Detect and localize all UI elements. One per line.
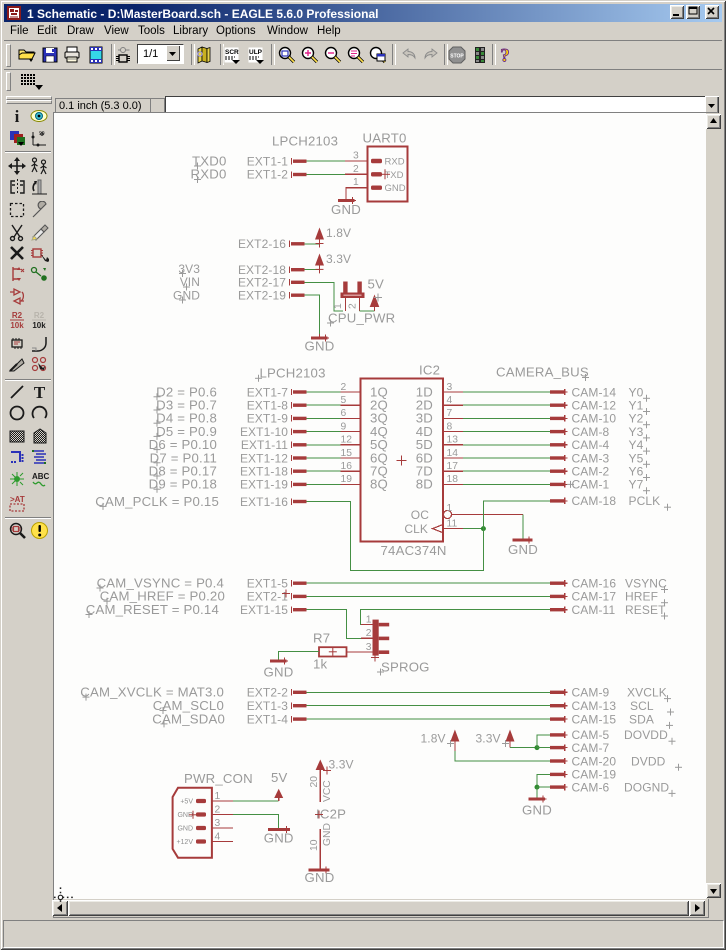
svg-text:GND: GND [322, 823, 333, 846]
svg-text:ABC: ABC [32, 472, 49, 481]
net label D5 = P0.9 [154, 424, 218, 440]
svg-text:10k: 10k [10, 321, 24, 329]
svg-text:1k: 1k [313, 657, 328, 672]
IC2 pin 9 (4Q) [341, 421, 389, 439]
svg-text:GND: GND [331, 202, 361, 217]
pin EXT1-11 [241, 438, 307, 452]
net label D9 = P0.18 [149, 477, 217, 493]
IC2 pin 14 (6D) [416, 448, 463, 466]
net label PCLK [629, 494, 672, 511]
wire EXT1-19 to IC2 [307, 483, 341, 485]
ground symbol (camera) [522, 796, 552, 818]
pin CAM-4 [550, 438, 610, 452]
svg-text:20: 20 [309, 776, 320, 788]
svg-text:10k: 10k [32, 321, 46, 329]
net label D8 = P0.17 [149, 464, 217, 480]
pin EXT1-1 [247, 154, 307, 168]
svg-text:CAMERA_BUS: CAMERA_BUS [496, 365, 589, 380]
net label D2 = P0.6 [154, 384, 218, 400]
wire junction to CAM-7 [537, 747, 550, 749]
svg-text:DVDD: DVDD [631, 754, 666, 768]
net label Y6 [629, 465, 651, 482]
pin EXT2-2 [247, 686, 307, 700]
net label CAM_RESET = P0.14 [86, 602, 220, 618]
svg-text:UART0: UART0 [363, 131, 407, 146]
svg-text:GND: GND [264, 665, 294, 680]
svg-text:CAM-13: CAM-13 [572, 699, 617, 713]
pin EXT2-19 [238, 289, 305, 303]
net label DOVDD [624, 728, 676, 745]
net label TXD0 [192, 153, 227, 169]
svg-text:EXT1-5: EXT1-5 [247, 577, 289, 591]
wire 3.3V to junction [510, 747, 537, 749]
PWR_CON pin 3 (GND) [177, 818, 233, 833]
pin 1 GND of UART0 [346, 177, 406, 194]
net label GND (left) [173, 288, 200, 303]
svg-text:CAM-11: CAM-11 [572, 603, 616, 617]
svg-text:3: 3 [447, 382, 453, 393]
wire EXT1-9 to IC2 [307, 417, 341, 419]
pin CAM-20 [550, 754, 616, 768]
wire EXT2-19 to ground [305, 295, 320, 334]
junction dot DOVDD node [535, 745, 540, 750]
wire EXT2-18 to 3.3V [305, 269, 320, 271]
pin CAM-5 [550, 728, 610, 742]
svg-text:SCR: SCR [225, 49, 239, 56]
svg-text:1.8V: 1.8V [326, 226, 351, 240]
net label D3 = P0.7 [154, 398, 218, 414]
svg-text:SPROG: SPROG [381, 660, 430, 675]
wire EXT1-4 to CAM-15 [307, 718, 551, 720]
svg-text:GND: GND [173, 288, 200, 302]
svg-text:Y1: Y1 [629, 399, 644, 413]
svg-text:EXT1-4: EXT1-4 [247, 712, 289, 726]
pin CAM-12 [550, 399, 616, 413]
pin CAM-17 [550, 590, 616, 604]
svg-text:TXD: TXD [385, 170, 404, 181]
svg-text:CAM-20: CAM-20 [572, 754, 617, 768]
svg-text:Y3: Y3 [629, 425, 644, 439]
svg-text:CAM-12: CAM-12 [572, 399, 617, 413]
pin EXT1-4 [247, 712, 307, 726]
wire EXT1-15 to SPROG pin2 [307, 610, 362, 639]
wire 5D to CAM-4 [463, 444, 550, 446]
svg-text:CAM-7: CAM-7 [572, 741, 610, 755]
svg-text:+5V: +5V [180, 799, 193, 806]
pin EXT1-12 [240, 451, 307, 465]
supply symbol 5V [368, 277, 385, 312]
svg-text:SCL: SCL [630, 699, 654, 713]
IC2 pin 11 (CLK) with clock triangle [404, 518, 463, 536]
net label CAM_HREF = P0.20 [100, 589, 225, 605]
svg-text:CAM-10: CAM-10 [572, 412, 617, 426]
pin CAM-18 [550, 494, 616, 508]
svg-text:1: 1 [353, 177, 359, 188]
svg-text:10: 10 [309, 839, 320, 851]
svg-text:3.3V: 3.3V [326, 252, 351, 266]
net label D7 = P0.11 [150, 450, 217, 466]
svg-text:EXT2-17: EXT2-17 [238, 276, 286, 290]
svg-text:8: 8 [447, 421, 453, 432]
junction dot DOGND node [535, 785, 540, 790]
pin EXT1-19 [240, 478, 307, 492]
wire GND pin2 to ground [233, 815, 278, 829]
svg-text:74AC374N: 74AC374N [381, 543, 447, 558]
svg-text:CAM-4: CAM-4 [572, 438, 610, 452]
svg-text:5: 5 [341, 395, 347, 406]
pin CAM-3 [550, 451, 610, 465]
net label D4 = P0.8 [154, 411, 218, 427]
wire EXT2-2 to CAM-9 [307, 691, 551, 693]
IC2 pin 12 (5Q) [341, 435, 389, 453]
origin cross EXT2 part (after EXT2-1) [282, 590, 290, 598]
supply symbol 3.3V (camera) [476, 730, 515, 748]
svg-text:EXT2-1: EXT2-1 [247, 590, 289, 604]
IC2 pin 6 (3Q) [341, 408, 389, 426]
svg-text:9: 9 [341, 421, 347, 432]
wire +5V pin to 5V supply [233, 800, 279, 802]
svg-text:CAM-18: CAM-18 [572, 494, 617, 508]
svg-text:12: 12 [341, 435, 353, 446]
net label SCL [630, 699, 674, 716]
svg-text:EXT1-15: EXT1-15 [240, 603, 288, 617]
wire RXD0 net [307, 173, 346, 175]
wire R7 to ground [278, 652, 319, 660]
IC2 pin 17 (7D) [416, 461, 463, 479]
svg-text:6: 6 [341, 408, 347, 419]
svg-text:1: 1 [215, 791, 221, 802]
svg-text:EXT1-8: EXT1-8 [247, 399, 289, 413]
svg-text:8Q: 8Q [370, 477, 388, 492]
svg-text:T: T [34, 383, 46, 402]
pin EXT1-18 [240, 465, 307, 479]
wire 6D to CAM-3 [463, 457, 550, 459]
svg-text:GND: GND [522, 803, 552, 818]
SPROG pin 2 [361, 628, 389, 640]
wire 8D to CAM-1 [463, 483, 550, 485]
svg-text:R2: R2 [34, 311, 45, 320]
IC2 pin 19 (8Q) [341, 474, 389, 492]
svg-text:CAM-14: CAM-14 [572, 385, 617, 399]
svg-text:GND: GND [508, 542, 538, 557]
svg-text:ULP: ULP [249, 49, 263, 56]
pin CAM-8 [550, 425, 610, 439]
svg-text:5V: 5V [271, 770, 288, 785]
svg-text:CAM-8: CAM-8 [572, 425, 610, 439]
pin EXT1-10 [240, 425, 307, 439]
wire EXT1-7 to IC2 [307, 391, 341, 393]
pin EXT2-18 [238, 263, 305, 277]
origin cross UART0 [380, 169, 390, 179]
net label CAM_XVCLK = MAT3.0 [80, 685, 224, 701]
pin CAM-2 [550, 465, 610, 479]
IC2 pin 3 (1D) [416, 382, 463, 400]
wire CAM-19 to gnd node [537, 774, 550, 787]
svg-text:CPU_PWR: CPU_PWR [328, 311, 395, 326]
svg-text:EXT2-16: EXT2-16 [238, 237, 286, 251]
pin EXT1-2 [247, 168, 307, 182]
pin CAM-6 [550, 780, 610, 794]
svg-text:4: 4 [447, 395, 453, 406]
svg-text:RESET: RESET [625, 603, 666, 617]
origin cross SPROG [371, 654, 379, 662]
pin CAM-19 [550, 768, 616, 782]
pin EXT1-8 [247, 399, 307, 413]
svg-text:CAM_PCLK = P0.15: CAM_PCLK = P0.15 [95, 494, 219, 509]
svg-text:3: 3 [215, 818, 221, 829]
svg-text:Y0: Y0 [629, 385, 644, 399]
svg-text:PCLK: PCLK [629, 494, 661, 508]
wire gnd node down [536, 787, 538, 797]
wire 2D to CAM-12 [463, 404, 550, 406]
svg-text:EXT1-3: EXT1-3 [247, 699, 289, 713]
connector UART0 body [368, 147, 408, 202]
svg-text:CAM-1: CAM-1 [572, 478, 610, 492]
svg-text:90: 90 [39, 131, 45, 137]
connector PWR_CON body [173, 788, 212, 858]
svg-text:2: 2 [341, 382, 347, 393]
svg-text:CAM-16: CAM-16 [572, 577, 617, 591]
wire EXT2-17 to CPU_PWR pin1 [305, 282, 344, 311]
svg-text:EXT1-7: EXT1-7 [247, 385, 289, 399]
PWR_CON pin 2 (GND) [177, 804, 233, 819]
svg-text:14: 14 [447, 448, 459, 459]
pin CAM-13 [550, 699, 616, 713]
svg-text:2: 2 [366, 628, 372, 639]
svg-text:CAM-3: CAM-3 [572, 451, 610, 465]
svg-text:Y5: Y5 [629, 451, 644, 465]
svg-text:CAM-2: CAM-2 [572, 465, 610, 479]
pin CAM-10 [550, 412, 616, 426]
svg-text:GND: GND [177, 812, 193, 819]
svg-text:LPCH2103: LPCH2103 [260, 366, 326, 381]
svg-text:1: 1 [447, 503, 453, 514]
svg-text:1: 1 [333, 303, 344, 309]
supply symbol 3.3V (IC2P VCC) [316, 758, 354, 775]
IC U1 74AC374N body [361, 379, 444, 542]
svg-text:CAM-9: CAM-9 [572, 686, 610, 700]
net label Y1 [629, 399, 651, 416]
PWR_CON pin 1 (+5V) [180, 791, 233, 806]
svg-text:CAM_RESET = P0.14: CAM_RESET = P0.14 [86, 602, 219, 617]
svg-text:2: 2 [353, 164, 359, 175]
bus label CAMERA_BUS [496, 365, 589, 381]
jumper CPU_PWR [341, 282, 365, 312]
svg-text:EXT1-16: EXT1-16 [240, 495, 288, 509]
svg-text:DOVDD: DOVDD [624, 728, 668, 742]
part name SPROG [377, 660, 430, 676]
wire CPU_PWR pin2 to 5V [360, 310, 375, 312]
pin CAM-11 [550, 603, 615, 617]
pin EXT2-1 [247, 590, 307, 604]
wire EXT1-12 to IC2 [307, 457, 341, 459]
wire EXT1-3 to CAM-13 [307, 705, 551, 707]
supply symbol 1.8V (camera) [421, 730, 460, 752]
net label D6 = P0.10 [149, 437, 217, 453]
IC2 pin 5 (2Q) [341, 395, 389, 413]
svg-text:SDA: SDA [629, 712, 654, 726]
svg-text:PWR_CON: PWR_CON [184, 771, 253, 786]
svg-text:>AT: >AT [10, 495, 25, 504]
svg-text:EXT1-2: EXT1-2 [247, 168, 289, 182]
svg-text:EXT1-18: EXT1-18 [240, 465, 288, 479]
origin cross IC2 [397, 456, 407, 466]
value label LPCH2103 (EXT1 part, IC2 block) [255, 366, 326, 382]
svg-text:EXT2-2: EXT2-2 [247, 686, 289, 700]
resistor R7 [319, 647, 347, 656]
svg-text:LPCH2103: LPCH2103 [272, 134, 338, 149]
net label Y2 [629, 412, 651, 429]
ground symbol (EXT2-19) [305, 334, 335, 354]
net label CAM_SDA0 [152, 711, 225, 727]
svg-text:i: i [15, 107, 20, 126]
ground symbol (OC) [508, 537, 538, 558]
wire EXT1-10 to IC2 [307, 431, 341, 433]
svg-text:17: 17 [447, 461, 459, 472]
svg-text:CAM-15: CAM-15 [572, 712, 617, 726]
svg-text:7: 7 [447, 408, 453, 419]
origin cross CAMERA_BUS part (at CAM-1) [567, 481, 574, 488]
SPROG pin 1 [361, 614, 389, 626]
net label CAM_VSYNC = P0.4 [97, 576, 225, 592]
IC2 pin 4 (2D) [416, 395, 463, 413]
pin EXT1-15 [240, 603, 307, 617]
wire EXT2-1 to CAM-17 [307, 595, 551, 597]
svg-text:XVCLK: XVCLK [627, 686, 667, 700]
svg-text:CAM-17: CAM-17 [572, 590, 617, 604]
net label RXD0 [191, 167, 227, 183]
SPROG pin 3 [347, 642, 390, 654]
pin CAM-15 [550, 712, 616, 726]
svg-text:Y7: Y7 [629, 478, 644, 492]
net label VSYNC [625, 577, 668, 594]
IC2 pin 13 (5D) [416, 435, 463, 453]
svg-text:3.3V: 3.3V [476, 732, 501, 746]
svg-text:5V: 5V [368, 277, 385, 292]
svg-text:GND: GND [305, 870, 335, 885]
part name IC2P [315, 807, 346, 822]
IC2 pin 1 (OC) with inversion bubble [411, 503, 523, 522]
svg-text:EXT1-11: EXT1-11 [241, 438, 288, 452]
svg-text:Y6: Y6 [629, 465, 644, 479]
svg-text:IC2: IC2 [419, 363, 440, 378]
net label RESET [625, 603, 668, 620]
pin CAM-16 [550, 577, 616, 591]
svg-text:EXT1-12: EXT1-12 [240, 451, 288, 465]
net label SDA [629, 712, 673, 729]
svg-text:?: ? [500, 46, 510, 66]
net label DVDD [631, 754, 682, 771]
wire 3D to CAM-10 [463, 417, 550, 419]
svg-text:Y4: Y4 [629, 438, 644, 452]
ground symbol (UART) [331, 197, 361, 217]
svg-text:EXT1-19: EXT1-19 [240, 478, 288, 492]
svg-text:EXT2-19: EXT2-19 [238, 289, 286, 303]
supply symbol 3.3V (top) [315, 252, 351, 273]
svg-text:OC: OC [411, 508, 429, 522]
net label DOGND [624, 780, 676, 797]
IC2P pin 10 (GND) [309, 823, 333, 868]
wire 7D to CAM-2 [463, 470, 550, 472]
IC2 pin 15 (6Q) [341, 448, 389, 466]
svg-text:+12V: +12V [176, 839, 193, 846]
pin EXT1-3 [247, 699, 307, 713]
pin EXT2-17 [238, 276, 305, 290]
svg-text:1.8V: 1.8V [421, 732, 446, 746]
wire EXT1-18 to IC2 [307, 470, 341, 472]
pin EXT2-16 [238, 237, 305, 251]
pin CAM-9 [550, 686, 610, 700]
net label Y7 [629, 478, 651, 495]
svg-text:R2: R2 [12, 311, 23, 320]
IC2 pin 16 (7Q) [341, 461, 389, 479]
crosshair cursor mark [46, 882, 78, 908]
net label HREF [625, 590, 668, 607]
wire EXT1-5 to CAM-16 [307, 582, 551, 584]
pin 3 RXD of UART0 [345, 151, 405, 168]
svg-text:2: 2 [348, 303, 359, 309]
label CPU_PWR [327, 311, 395, 327]
svg-text:HREF: HREF [625, 590, 658, 604]
svg-text:CLK: CLK [404, 522, 428, 536]
svg-text:GND: GND [385, 183, 406, 194]
svg-text:8D: 8D [416, 477, 433, 492]
supply symbol 1.8V (top) [315, 226, 351, 248]
wire UART gnd [346, 188, 368, 199]
svg-text:3: 3 [366, 642, 372, 653]
svg-text:15: 15 [341, 448, 353, 459]
svg-text:3: 3 [353, 151, 359, 162]
svg-text:18: 18 [447, 474, 459, 485]
wire 4D to CAM-8 [463, 431, 550, 433]
svg-text:2: 2 [215, 804, 221, 815]
connector SPROG body [373, 620, 379, 656]
pin EXT1-9 [247, 412, 307, 426]
svg-text:16: 16 [341, 461, 353, 472]
svg-text:EXT1-1: EXT1-1 [247, 154, 289, 168]
wire TXD0 net [307, 160, 346, 162]
ground symbol (PWR_CON) [264, 826, 294, 846]
wire 1D to CAM-14 [463, 391, 550, 393]
svg-text:GND: GND [264, 831, 294, 846]
junction dot CLK node [481, 526, 486, 531]
IC2 pin 2 (1Q) [341, 382, 389, 400]
svg-text:Y2: Y2 [629, 412, 644, 426]
IC2 pin 18 (8D) [416, 474, 463, 492]
svg-text:R7: R7 [313, 631, 330, 646]
svg-text:4: 4 [215, 831, 221, 842]
svg-text:EXT1-10: EXT1-10 [240, 425, 288, 439]
IC2P pin 20 (VCC) [309, 770, 333, 802]
IC2 pin 7 (3D) [416, 408, 463, 426]
svg-text:19: 19 [341, 474, 353, 485]
PWR_CON pin 4 (+12V) [176, 831, 233, 846]
wire EXT1-8 to IC2 [307, 404, 341, 406]
supply symbol 5V (PWR_CON) [271, 770, 288, 801]
wire EXT1-11 to IC2 [307, 444, 341, 446]
ground symbol (IC2P) [305, 867, 335, 886]
wire junction to CAM-5 [537, 735, 550, 748]
svg-text:3.3V: 3.3V [329, 758, 354, 772]
pin EXT1-7 [247, 385, 307, 399]
pin CAM-14 [550, 385, 616, 399]
net label CAM_PCLK = P0.15 [95, 494, 219, 510]
svg-text:RXD: RXD [385, 157, 405, 168]
svg-text:GND: GND [305, 339, 335, 354]
net label Y4 [629, 438, 651, 455]
pin EXT1-5 [247, 577, 307, 591]
svg-text:STOP: STOP [450, 54, 464, 60]
